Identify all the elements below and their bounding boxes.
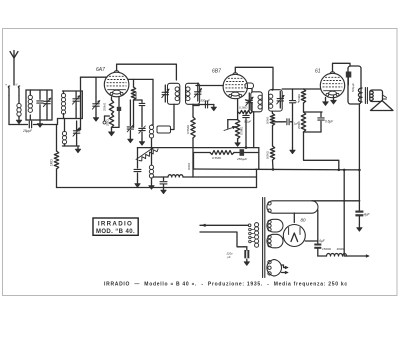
svg-text:30000: 30000 [187,162,191,170]
svg-text:250μμF: 250μμF [236,157,247,161]
svg-text:0.5MΩ: 0.5MΩ [212,156,222,160]
svg-text:N: N [16,84,18,87]
svg-text:μF: μF [227,255,231,259]
svg-text:1MΩ: 1MΩ [50,159,54,166]
svg-text:6B7: 6B7 [212,69,221,75]
svg-text:1500Ω: 1500Ω [322,247,332,251]
svg-text:220v.: 220v. [226,252,234,256]
svg-text:6A7: 6A7 [96,67,105,73]
svg-text:80: 80 [301,218,307,223]
svg-text:IRRADIO — Modello « B 40 ».: IRRADIO — Modello « B 40 ». - Produzione… [104,282,348,288]
svg-text:0.6μF: 0.6μF [325,120,334,124]
svg-text:500μμF: 500μμF [201,99,211,103]
svg-text:0.1μF: 0.1μF [244,120,251,124]
svg-text:61: 61 [315,69,321,75]
svg-text:0.5MΩ: 0.5MΩ [297,94,301,102]
svg-text:IRRADIO: IRRADIO [98,221,133,228]
svg-text:50kΩ: 50kΩ [134,91,138,99]
svg-text:25μμF: 25μμF [22,129,33,133]
svg-text:25000: 25000 [297,121,301,129]
svg-text:50000: 50000 [266,116,270,124]
svg-text:0.5MΩ: 0.5MΩ [186,124,190,134]
svg-text:250kΩ: 250kΩ [103,103,107,111]
svg-text:0.1MΩ: 0.1MΩ [239,106,248,110]
svg-text:4μF: 4μF [364,213,371,217]
svg-text:300Ω: 300Ω [337,247,345,251]
svg-text:500μμF: 500μμF [351,83,355,92]
svg-text:0.5MΩ: 0.5MΩ [240,127,244,135]
svg-text:5000Ω: 5000Ω [266,151,270,159]
svg-text:MOD. “B 40.: MOD. “B 40. [96,229,135,235]
